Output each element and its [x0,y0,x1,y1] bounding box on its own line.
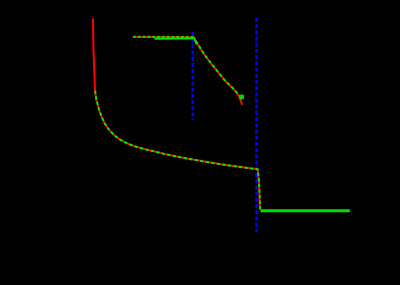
green dashed diagonal overlay [196,41,241,97]
green corner zigzag [194,37,197,44]
solid green second top line [155,37,194,39]
blue dashed vertical line 2 (x=256) [255,18,257,232]
red solid main curve (vertical asymptote, knee, tail, drop) [93,19,260,210]
green dashed top horizontal overlay [133,36,194,38]
red top line: horizontal then curved diagonal with red tail [133,37,242,105]
green end blob of diagonal [239,95,243,100]
green dashed main curve overlay [95,91,260,210]
bright green flat bottom line [261,209,350,212]
blue dashed vertical line 1 (x=193) [192,32,194,120]
